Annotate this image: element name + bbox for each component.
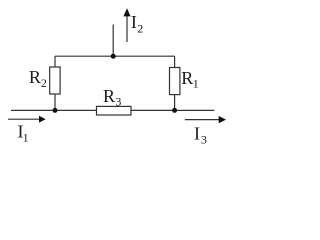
svg-text:3: 3	[115, 95, 121, 109]
arrow I3 current direction	[185, 116, 226, 123]
svg-text:R: R	[181, 68, 193, 88]
wire stub to node I2	[112, 25, 114, 57]
wire R1 bottom lead	[174, 95, 176, 111]
junction node bottom left	[53, 108, 58, 113]
arrow I2 current direction	[123, 8, 130, 42]
junction node on top wire	[111, 54, 116, 59]
arrow I1 current direction	[8, 116, 46, 123]
svg-text:I: I	[194, 123, 200, 143]
resistor R1	[170, 68, 180, 95]
resistor R2	[50, 67, 60, 94]
wire top horizontal	[55, 55, 175, 57]
svg-text:1: 1	[23, 130, 29, 144]
svg-text:2: 2	[137, 22, 143, 36]
svg-text:I: I	[131, 12, 137, 32]
wire R2 bottom lead	[54, 94, 56, 110]
svg-text:2: 2	[41, 76, 47, 90]
resistor R3	[97, 106, 132, 115]
junction node bottom right	[172, 108, 177, 113]
wire bottom horizontal	[11, 109, 214, 111]
svg-text:3: 3	[201, 132, 207, 146]
svg-text:R: R	[29, 67, 41, 87]
wire R1 top lead	[174, 56, 176, 67]
wire R2 top lead	[54, 56, 56, 67]
svg-text:R: R	[103, 86, 115, 106]
svg-text:1: 1	[193, 77, 199, 91]
